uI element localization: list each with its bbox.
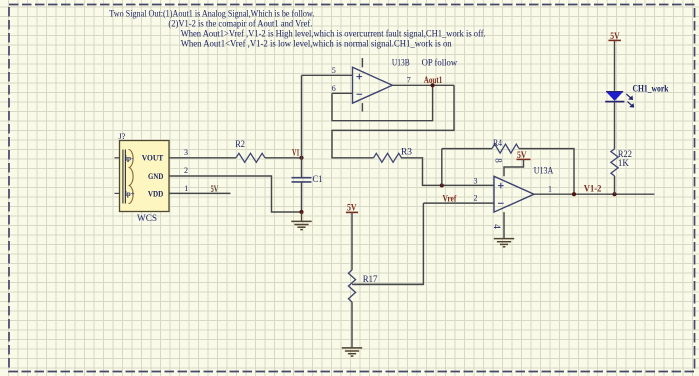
wire R17 to ground: [351, 302, 353, 348]
pin number 4 rotated: [492, 224, 502, 229]
label C1: [313, 175, 323, 185]
svg-text:ip-: ip-: [125, 153, 134, 162]
svg-text:VDD: VDD: [148, 188, 163, 198]
svg-text:R4: R4: [493, 139, 502, 149]
net label Vref: [443, 193, 458, 203]
svg-text:GND: GND: [148, 171, 163, 181]
svg-text:R17: R17: [363, 275, 378, 285]
sensor ip+ label: [125, 189, 135, 198]
wire GND pin2 across: [169, 176, 302, 212]
svg-text:5V: 5V: [347, 203, 357, 213]
pin number 1 (U13A): [548, 185, 552, 194]
sensor J? body: [120, 141, 170, 212]
resistor R17: [348, 270, 355, 302]
wire Vref pin2: [423, 202, 494, 204]
svg-text:U13A: U13A: [534, 166, 554, 176]
svg-text:U13B: U13B: [392, 58, 410, 68]
wire pin6 stub: [332, 92, 353, 94]
net label CH1_work: [633, 85, 670, 95]
wire R4 to output node: [519, 149, 574, 195]
svg-text:1K: 1K: [618, 159, 629, 169]
junction dot pin3: [440, 183, 444, 187]
svg-text:V1-2: V1-2: [584, 184, 602, 194]
wire V1 down to C1: [301, 158, 303, 178]
svg-text:CH1_work: CH1_work: [633, 85, 670, 95]
label 1K: [618, 159, 629, 169]
svg-text:5V: 5V: [517, 150, 527, 160]
op-amp U13B: [353, 67, 393, 103]
U13A bottom power pin 4: [503, 212, 505, 239]
svg-text:6: 6: [332, 84, 336, 93]
svg-text:1: 1: [184, 184, 188, 193]
pin number 8 rotated: [494, 158, 504, 163]
label U13B: [392, 58, 410, 68]
output wire pin7: [392, 84, 454, 86]
wire VDD pin1: [169, 192, 231, 194]
junction dot Aout1: [431, 83, 435, 87]
pin number 2 (U13A): [474, 194, 478, 203]
sensor coil winding: [129, 150, 134, 204]
svg-text:VOUT: VOUT: [142, 153, 164, 163]
label U13A: [534, 166, 554, 176]
sensor left pin stubs: [115, 158, 120, 194]
pin number 3 (VOUT): [184, 148, 188, 157]
svg-text:2: 2: [184, 166, 188, 175]
output wire U13A: [534, 193, 654, 195]
label R4: [493, 139, 502, 149]
svg-text:J?: J?: [119, 131, 126, 141]
svg-text:5V: 5V: [610, 31, 620, 41]
svg-text:C1: C1: [313, 175, 323, 185]
feedback wire pin6 to output: [332, 85, 433, 120]
svg-text:8: 8: [494, 158, 504, 163]
op-amp U13A: [494, 176, 534, 212]
svg-text:5V: 5V: [211, 184, 219, 194]
pin number 5: [332, 66, 336, 75]
ground symbol under C1: [291, 221, 311, 229]
svg-text:OP follow: OP follow: [422, 57, 458, 68]
svg-text:7: 7: [407, 76, 411, 85]
annotation text block: [109, 9, 485, 50]
wire V1 up to pin5 level: [301, 75, 303, 158]
label R17: [363, 275, 378, 285]
svg-text:(2)V1-2 is the comapir of Aout: (2)V1-2 is the comapir of Aout1 and Vref…: [168, 19, 312, 30]
power port 5V above R17: [346, 203, 358, 271]
sensor pin label VOUT: [142, 153, 164, 163]
resistor R22: [611, 149, 618, 176]
pin number 1 (VDD): [184, 184, 188, 193]
svg-text:Two Signal Out:(1)Aout1 is Ana: Two Signal Out:(1)Aout1 is Analog Signal…: [109, 9, 314, 20]
sensor ip- label: [125, 153, 134, 162]
sensor name WCS: [137, 214, 157, 224]
svg-text:2: 2: [474, 194, 478, 203]
junction dot C1/GND: [299, 210, 303, 214]
U13B power pin stubs: [361, 58, 363, 112]
wire Aout1 to R3: [332, 85, 454, 158]
sensor pin label GND: [148, 171, 163, 181]
net label Aout1: [424, 75, 443, 85]
svg-text:When Aout1<Vref ,V1-2 is low l: When Aout1<Vref ,V1-2 is low level,which…: [181, 39, 452, 50]
pin number 6: [332, 84, 336, 93]
wire pin5 horizontal: [302, 74, 353, 76]
sensor refdes J?: [119, 131, 126, 141]
svg-text:3: 3: [474, 177, 478, 186]
power port 5V above LED: [608, 31, 621, 91]
wire R22 to V1-2: [614, 176, 616, 194]
wire VOUT pin3 to R2: [169, 157, 236, 159]
pin number 2 (GND): [184, 166, 188, 175]
svg-text:ip+: ip+: [125, 189, 135, 198]
wire LED to R22: [614, 102, 616, 149]
svg-text:When Aout1>Vref ,V1-2 is High: When Aout1>Vref ,V1-2 is High level,whic…: [181, 29, 486, 40]
svg-text:4: 4: [492, 224, 502, 229]
capacitor C1: [292, 178, 312, 182]
svg-text:Vref: Vref: [443, 193, 458, 203]
wire down to ground symbol: [301, 212, 303, 221]
wire R3 to pin3 junction: [401, 158, 494, 186]
pin number 3 (U13A): [474, 177, 478, 186]
wire R2 to V1: [265, 157, 302, 159]
svg-text:1: 1: [548, 185, 552, 194]
sensor pin label VDD: [148, 188, 163, 198]
junction dot output: [572, 192, 576, 196]
svg-text:R2: R2: [235, 140, 245, 150]
wire to R4: [442, 148, 492, 150]
resistor R4: [492, 144, 519, 153]
svg-text:3: 3: [184, 148, 188, 157]
label R22: [618, 150, 632, 160]
pin number 7: [407, 76, 411, 85]
wire junction up to R4: [441, 149, 443, 186]
junction dot R22: [612, 192, 616, 196]
label R2: [235, 140, 245, 150]
power label 5V at VDD: [211, 184, 219, 194]
svg-text:R3: R3: [401, 148, 412, 158]
node V1 label: [292, 148, 300, 158]
junction dot V1: [299, 156, 303, 160]
power port 5V at U13A: [504, 150, 531, 177]
resistor R2: [236, 153, 265, 162]
svg-text:V1: V1: [292, 148, 300, 158]
svg-text:5: 5: [332, 66, 336, 75]
net label V1-2: [584, 184, 602, 194]
label R3: [401, 148, 412, 158]
svg-text:WCS: WCS: [137, 214, 157, 224]
wire C1 to ground node: [301, 182, 303, 212]
ground symbol under U13A: [494, 239, 514, 247]
wire R17 tap: [352, 283, 423, 285]
label OP follow: [422, 57, 458, 68]
LED D? CH1_work: [605, 92, 633, 107]
resistor R3: [374, 153, 402, 162]
ground symbol under R17: [342, 348, 362, 356]
sensor core lines: [123, 150, 126, 204]
wire Vref down to R17 tap: [354, 203, 423, 284]
